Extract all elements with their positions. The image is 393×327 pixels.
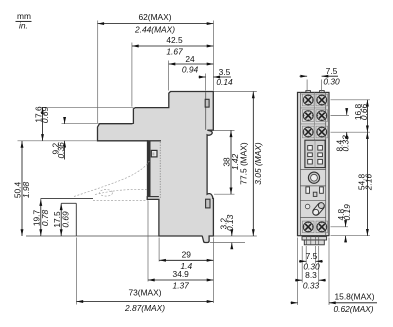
svg-text:1.37: 1.37 [173, 281, 190, 291]
svg-text:0.78: 0.78 [40, 210, 50, 227]
side view body outline [98, 92, 214, 243]
dim 62(MAX) [97, 12, 213, 35]
hidden edge dashed [159, 142, 161, 198]
svg-text:2.16: 2.16 [364, 174, 374, 192]
center post thick line [148, 141, 151, 197]
dim 24 [169, 54, 214, 75]
dim 50.4 vertical [13, 141, 32, 236]
dim 17.5 vertical [52, 203, 71, 236]
svg-text:24: 24 [185, 54, 195, 64]
dim 9.2 vertical (outside arrows) [51, 118, 66, 160]
row dividers [300, 93, 325, 95]
contact window [305, 140, 325, 167]
dim 16.8 [353, 100, 369, 132]
svg-text:3.5: 3.5 [219, 67, 231, 77]
svg-text:0.66: 0.66 [359, 104, 369, 121]
dim 3.5 [199, 67, 233, 87]
svg-text:73(MAX): 73(MAX) [128, 288, 161, 298]
terminal lip top edge [147, 196, 159, 198]
arm bottom edge over band [147, 140, 161, 142]
circle band [300, 170, 325, 186]
svg-text:1.98: 1.98 [21, 182, 31, 199]
svg-text:2.44(MAX): 2.44(MAX) [134, 25, 175, 35]
top tabs [306, 91, 311, 93]
foot [302, 237, 327, 245]
lower-left front block lines [41, 198, 94, 200]
dim 8.4 (outside arrows) [335, 108, 351, 151]
dim 54.8 [357, 132, 374, 236]
dim 15.8(MAX) [291, 292, 378, 315]
side rails [299, 92, 301, 235]
dim 38 vertical [222, 130, 241, 194]
svg-text:7.5: 7.5 [306, 251, 318, 261]
lower DIN clip [206, 199, 210, 208]
svg-text:0.19: 0.19 [342, 204, 352, 221]
dim 17.6 vertical [33, 106, 50, 141]
svg-text:0.33: 0.33 [341, 135, 351, 152]
screws rows 1-3 [302, 94, 327, 138]
svg-text:34.9: 34.9 [173, 269, 190, 279]
dim 29 [159, 250, 213, 272]
front body [298, 91, 330, 236]
svg-text:2.87(MAX): 2.87(MAX) [124, 303, 165, 313]
svg-text:7.5: 7.5 [326, 66, 338, 76]
dim 3.2 vertical (outside arrows) [219, 214, 235, 249]
svg-text:1.67: 1.67 [166, 47, 183, 57]
svg-text:0.69: 0.69 [40, 107, 50, 124]
contact slots in window [308, 146, 323, 164]
svg-text:in.: in. [19, 21, 28, 31]
dim 73(MAX) [77, 288, 214, 313]
svg-text:0.30: 0.30 [323, 77, 340, 87]
svg-text:0.14: 0.14 [216, 77, 233, 87]
screws row 4 [302, 221, 327, 233]
dim 42.5 [132, 35, 213, 57]
svg-text:0.62(MAX): 0.62(MAX) [334, 304, 374, 314]
svg-text:0.13: 0.13 [225, 214, 235, 231]
svg-text:0.33: 0.33 [303, 281, 320, 291]
svg-text:0.94: 0.94 [182, 65, 199, 75]
svg-text:15.8(MAX): 15.8(MAX) [335, 292, 375, 302]
svg-text:62(MAX): 62(MAX) [138, 12, 171, 22]
relay dashed silhouette curves [74, 161, 149, 201]
rail channel wall line [205, 92, 207, 130]
svg-text:8.3: 8.3 [305, 270, 317, 280]
lower slots [300, 187, 325, 200]
dim 77.5 (MAX) vertical [239, 92, 264, 237]
svg-text:77.5 (MAX): 77.5 (MAX) [239, 142, 249, 185]
svg-text:42.5: 42.5 [166, 35, 183, 45]
svg-text:0.36: 0.36 [56, 142, 66, 159]
dim 7.5 top [300, 66, 340, 87]
svg-text:29: 29 [182, 250, 192, 260]
dim 4.8 (outside arrows) [336, 204, 352, 242]
dim 7.5 bottom [299, 251, 323, 272]
dim 19.7 vertical [32, 199, 51, 236]
svg-text:3.05 (MAX): 3.05 (MAX) [253, 142, 263, 185]
legend mm/in [16, 11, 32, 31]
svg-text:0.69: 0.69 [61, 211, 71, 228]
clip section [300, 201, 325, 217]
dim 8.3 [295, 270, 326, 291]
clip hole square [151, 150, 157, 157]
upper DIN clip [205, 99, 209, 107]
svg-text:mm: mm [17, 11, 31, 21]
dim 34.9 [148, 269, 213, 291]
